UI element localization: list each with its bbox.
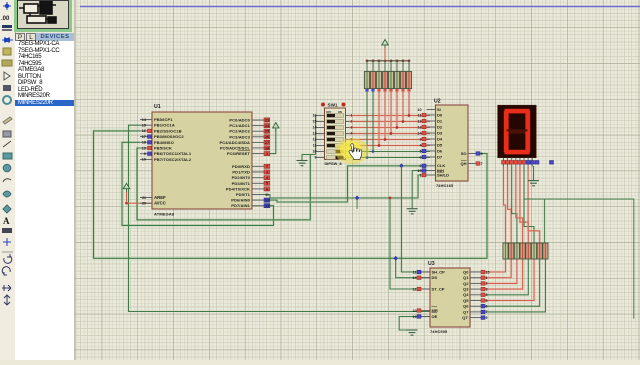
U2 pin 2 CLK: [427, 165, 436, 167]
svg-text:PD7/AIN1: PD7/AIN1: [231, 203, 250, 208]
junction: pull-up node 4: [384, 138, 387, 141]
svg-text:16: 16: [142, 129, 146, 133]
svg-text:6: 6: [419, 155, 421, 159]
svg-text:9: 9: [144, 152, 146, 156]
overview window (top-left preview): [14, 0, 72, 32]
svg-text:SH/LD: SH/LD: [437, 172, 449, 177]
U1 pin 4 PD2/INT0: [252, 177, 264, 179]
wire: SW1 pin 2 to U2 D1: [349, 120, 430, 123]
U1 pin 18 PB4/MISO: [140, 141, 152, 143]
wire: SW1 pin 1 to U2 D0: [349, 114, 430, 117]
U2 pin 3 D4: [427, 138, 436, 140]
svg-text:26: 26: [265, 135, 269, 139]
svg-text:Q7: Q7: [463, 309, 469, 314]
U3 pin 5 Q5: [470, 300, 481, 302]
U1 pin 16 PB2/SS/OC1B: [140, 130, 152, 132]
7seg segment f: [504, 111, 509, 132]
U2 pin 1 SH/LD: [427, 174, 436, 176]
junction: rail node: [408, 59, 411, 62]
svg-text:PB4/MISO: PB4/MISO: [154, 140, 174, 145]
wire: RESET pull-up: [264, 130, 276, 154]
svg-text:PB5/SCK: PB5/SCK: [154, 146, 172, 151]
U2 pin 14 D3: [427, 132, 436, 134]
SW1 pin 4 right: [346, 133, 350, 135]
resistor R15 segment series: [537, 243, 542, 259]
SW1 switch element 4: [327, 132, 344, 136]
U1 pin 27 PC4/ADC4/SDA: [252, 141, 264, 143]
resistor R11 segment series: [514, 243, 519, 259]
U1 pin 25 PC2/ADC2: [252, 130, 264, 132]
svg-text:DS: DS: [432, 275, 438, 280]
SW1 pin 8 right: [346, 157, 350, 159]
U2 pin 15 INH: [427, 170, 436, 172]
wire: SW1 pin 8 to U2 D7: [349, 157, 430, 159]
7seg pin 6: [523, 158, 525, 167]
svg-text:3: 3: [266, 170, 268, 174]
svg-text:19: 19: [142, 146, 146, 150]
7seg pin 1: [503, 158, 505, 167]
svg-text:13: 13: [313, 132, 317, 136]
svg-text:Q4: Q4: [463, 292, 469, 297]
wire: SW1 left common rail: [315, 116, 317, 155]
svg-text:4: 4: [351, 132, 353, 136]
junction: pull-up node 3: [378, 144, 381, 147]
ground G1 left of SW1: [297, 161, 308, 166]
wire: PB4 left loop to PD7 net: [122, 142, 274, 225]
ground G4 under U3: [407, 330, 418, 335]
power arrow VCC above RP1: [382, 40, 388, 48]
svg-text:23: 23: [265, 118, 269, 122]
U3 pin 9 Q7': [470, 317, 481, 319]
wire: U3 Q1 to RP2 resistor 2: [481, 259, 511, 278]
7-segment display DS1 body: [498, 105, 537, 158]
resistor R16 segment series: [543, 243, 548, 259]
U3 pin 10 MR: [422, 310, 431, 312]
U2 pin 13 D2: [427, 126, 436, 128]
junction: rail node: [402, 59, 405, 62]
svg-text:PB2/SS/OC1B: PB2/SS/OC1B: [154, 128, 182, 133]
resistor R3 220R pull-up: [376, 72, 381, 89]
U1 pin 24 PC1/ADC1: [252, 125, 264, 127]
U3 pin 12 ST_CP: [422, 288, 431, 290]
wire: VCC rail above RP1: [367, 60, 409, 62]
svg-text:Q3: Q3: [463, 287, 469, 292]
resistor R13 segment series: [526, 243, 531, 259]
wire: 7seg pin 5 to RP2 resistor 5: [520, 167, 528, 244]
svg-text:PB6/TOSC1/XTAL1: PB6/TOSC1/XTAL1: [154, 151, 192, 156]
junction: blue diamond on SO bus: [394, 256, 398, 261]
U1 pin 6 PD4/T0/XCK: [252, 188, 264, 190]
U3 pin 13 OE: [422, 316, 431, 318]
R8 state mark: [407, 89, 410, 92]
svg-text:ATMEGA8: ATMEGA8: [154, 212, 175, 217]
U2 pin 7 QH: [468, 163, 476, 165]
svg-text:PC1/ADC1: PC1/ADC1: [229, 123, 250, 128]
SW1 switch element 5: [327, 138, 344, 142]
wire: branch SO bus down to U3 DS: [396, 258, 430, 277]
resistor R9 segment series: [503, 243, 508, 259]
svg-text:74HC595: 74HC595: [430, 329, 448, 334]
SW1 pin 2 right: [346, 121, 350, 123]
shift register U3 74HC595 body: [430, 268, 470, 327]
U1 RESET overline: [238, 150, 250, 152]
U1 pin 2 PD0/RXD: [252, 165, 264, 167]
junction: pull-up node 2: [372, 150, 375, 153]
svg-text:PC4/ADC4/SDA: PC4/ADC4/SDA: [219, 140, 250, 145]
svg-text:Q1: Q1: [463, 275, 469, 280]
svg-text:A: A: [3, 216, 10, 226]
wire: 7seg pin 3 to RP2 resistor 3: [512, 167, 517, 244]
svg-text:D2: D2: [437, 124, 443, 129]
svg-text:20: 20: [142, 202, 146, 206]
svg-text:5: 5: [419, 149, 421, 153]
U1 pin 23 PC0/ADC0: [252, 119, 264, 121]
op IC U1 ATMEGA8 body: [152, 112, 252, 209]
svg-text:PD5/T1: PD5/T1: [236, 192, 251, 197]
SW1 pin 9 left: [316, 157, 325, 159]
junction: pull-up node 7: [402, 120, 405, 123]
resistor R12 segment series: [520, 243, 525, 259]
svg-text:PD4/T0/XCK: PD4/T0/XCK: [226, 186, 250, 191]
wire: resistor top lead: [390, 61, 392, 72]
wire: resistor top lead: [372, 61, 374, 72]
svg-text:AVCC: AVCC: [154, 201, 166, 206]
wire: SW1 pin 5 to U2 D4: [349, 138, 430, 141]
U1 pin 3 PD1/TXD: [252, 171, 264, 173]
U3 pin 7 Q7: [470, 311, 481, 313]
resistor R6 220R pull-up: [394, 72, 399, 89]
junction: AVCC node: [125, 202, 128, 205]
U1 pin 9 PB6/TOSC1/XTAL1: [140, 153, 152, 155]
U3 pin 3 Q3: [470, 288, 481, 290]
resistor R1 220R pull-up: [364, 72, 369, 89]
power arrow VCC at AVCC: [123, 183, 129, 191]
svg-text:28: 28: [265, 146, 269, 150]
junction: diamond at latch branch: [355, 196, 359, 201]
DEVICES header: [36, 33, 74, 41]
svg-text:QH: QH: [461, 161, 467, 166]
wire: RP1 resistor 8 lead down: [408, 92, 411, 116]
wire: resistor top lead: [384, 61, 386, 72]
SW1 pin 7 right: [346, 151, 350, 153]
junction: rail node: [372, 59, 375, 62]
SW1 pin 6 right: [346, 145, 350, 147]
svg-text:PC5/ADC5/SCL: PC5/ADC5/SCL: [220, 145, 251, 150]
svg-text:1: 1: [486, 276, 488, 280]
junction: rail node: [384, 59, 387, 62]
SW1 switch element 7: [327, 150, 344, 154]
R4 state mark: [383, 89, 386, 92]
svg-text:11: 11: [265, 193, 269, 197]
wire: 7seg common to ground G3: [533, 166, 535, 181]
wire: SW1 pin 4 to U2 D3: [349, 132, 430, 135]
junction: rail node: [390, 59, 393, 62]
svg-text:16: 16: [313, 114, 317, 118]
wire: branch down to RP2 resistor 8: [543, 199, 545, 243]
U3 pin 2 Q2: [470, 282, 481, 284]
U3 pin 4 Q4: [470, 294, 481, 296]
wire: U2 INH to ground G2: [412, 171, 426, 209]
svg-text:SI: SI: [437, 107, 441, 112]
U1 pin 26 PC3/ADC3: [252, 136, 264, 138]
sheet border: [80, 6, 640, 8]
resistor R4 220R pull-up: [382, 72, 387, 89]
U3 pin 1 Q1: [470, 277, 481, 279]
resistor R8 220R pull-up: [406, 72, 411, 89]
ground G2 below U2: [407, 209, 418, 214]
svg-text:2: 2: [419, 164, 421, 168]
7seg pin 3: [511, 158, 513, 167]
svg-text:PB0/ICP1: PB0/ICP1: [154, 117, 173, 122]
svg-text:2: 2: [486, 282, 488, 286]
U2 pin 5 D6: [427, 150, 436, 152]
SW1 pin 14 left: [316, 127, 325, 129]
U1 pin 28 PC5/ADC5/SCL: [252, 147, 264, 149]
svg-text:13: 13: [265, 204, 269, 208]
SW1 reference label with probe dots: [321, 103, 325, 107]
wire: resistor top lead: [396, 61, 398, 72]
wire: resistor top lead: [408, 61, 410, 72]
svg-text:3: 3: [486, 287, 488, 291]
svg-text:SH_CP: SH_CP: [432, 269, 446, 274]
mouse cursor with highlight glow: [335, 138, 369, 164]
7seg pin 7: [527, 158, 529, 167]
svg-text:12: 12: [412, 287, 416, 291]
svg-text:AREF: AREF: [154, 195, 166, 200]
U2 pin 6 D7: [427, 156, 436, 158]
svg-text:21: 21: [142, 196, 146, 200]
wire: VCC feed RP1: [384, 48, 386, 61]
svg-text:5: 5: [266, 182, 268, 186]
resistor R5 220R pull-up: [388, 72, 393, 89]
R6 state mark: [395, 89, 398, 92]
U2 pin 11 D0: [427, 114, 436, 116]
7seg segment b: [525, 111, 530, 132]
svg-text:SO: SO: [461, 151, 467, 156]
svg-text:PC3/ADC3: PC3/ADC3: [229, 134, 250, 139]
wire: PB5 loop to SW1 ground rail: [137, 148, 310, 220]
wire: 7seg anode net to right riser: [524, 167, 634, 319]
SW1 switch element 6: [327, 144, 344, 148]
wire: RP1 resistor 7 lead down: [402, 92, 405, 122]
wire: VCC to U1 AVCC: [127, 192, 153, 204]
SW1 pin 16 left: [316, 115, 325, 117]
L button: [26, 33, 36, 41]
svg-text:PD3/INT1: PD3/INT1: [232, 181, 251, 186]
svg-text:5: 5: [486, 299, 488, 303]
svg-text:D3: D3: [437, 130, 443, 135]
wire: resistor top lead: [402, 61, 404, 72]
7seg pin 4: [515, 158, 517, 167]
U1 pin 5 PD3/INT1: [252, 182, 264, 184]
junction: red dot on latch net: [389, 197, 392, 200]
SW1 switch element 2: [327, 120, 344, 124]
SW1 pin 11 left: [316, 145, 325, 147]
svg-text:.00: .00: [1, 16, 10, 22]
svg-text:6: 6: [266, 187, 268, 191]
svg-text:PC6/RESET: PC6/RESET: [227, 151, 251, 156]
svg-text:D1: D1: [437, 118, 443, 123]
wire: RP1 resistor 2 lead down: [372, 92, 374, 152]
U2 pin 10 SI: [427, 109, 436, 111]
shift register U2 74HC165 body: [436, 105, 469, 181]
svg-text:Q5: Q5: [463, 298, 469, 303]
7seg segment c: [525, 131, 530, 152]
7seg pin 8: [531, 158, 533, 167]
svg-text:12: 12: [417, 119, 421, 123]
svg-text:3: 3: [419, 137, 421, 141]
svg-text:DIPSW_8: DIPSW_8: [325, 161, 343, 166]
DIP switch SW1 body: [325, 108, 346, 160]
7seg pin 5: [519, 158, 521, 167]
svg-text:U1: U1: [154, 104, 161, 110]
wire: latch branch down to MISO line: [356, 198, 358, 209]
svg-text:U2: U2: [434, 99, 441, 105]
svg-text:2: 2: [351, 120, 353, 124]
wire: resistor top lead: [366, 61, 368, 72]
svg-text:D5: D5: [437, 142, 443, 147]
wire: U3 Q5 to RP2 resistor 6: [481, 259, 534, 301]
svg-text:D4: D4: [437, 136, 443, 141]
svg-text:1: 1: [266, 152, 268, 156]
7seg segment a: [505, 109, 530, 114]
U3 pin 15 Q0: [470, 271, 481, 273]
wire: U3 Q6 to RP2 resistor 7: [481, 259, 540, 306]
U2 pin 12 D1: [427, 120, 436, 122]
svg-text:PC2/ADC2: PC2/ADC2: [229, 129, 250, 134]
U1 pin 13 PD7/AIN1: [252, 205, 264, 207]
svg-text:11: 11: [313, 144, 317, 148]
device list: [15, 41, 74, 360]
wire: SW1 pin 6 to U2 D5: [349, 144, 430, 147]
junction: pull-up node 8: [408, 114, 411, 117]
resistor R2 220R pull-up: [370, 72, 375, 89]
svg-text:14: 14: [313, 126, 317, 130]
7seg pin 10 state: [550, 161, 554, 165]
svg-text:7: 7: [486, 310, 488, 314]
svg-text:10: 10: [412, 309, 416, 313]
wire: U3 Q4 to RP2 resistor 5: [481, 259, 528, 295]
wire: 7seg pin 7 to RP2 resistor 7: [528, 167, 540, 244]
wire: PB2 to left loop down to SO bus: [94, 131, 488, 258]
wire: clock net U1 PD6 to U2 CLK: [264, 166, 427, 202]
P button: [15, 33, 25, 41]
U2 pin 9 SO: [468, 153, 476, 155]
svg-text:PD1/TXD: PD1/TXD: [232, 170, 250, 175]
ground G3 below 7seg: [528, 181, 539, 186]
wire: U2 SH/LD latch net from U1 PD5: [264, 175, 427, 198]
SW1 pin 10 left: [316, 151, 325, 153]
SW1 pin 1 right: [346, 115, 350, 117]
svg-text:PB3/MOSI/OC2: PB3/MOSI/OC2: [154, 134, 184, 139]
U2 pin 4 D5: [427, 144, 436, 146]
svg-text:10: 10: [313, 150, 317, 154]
svg-text:15: 15: [313, 120, 317, 124]
svg-text:Q0: Q0: [463, 269, 469, 274]
wire: RP1 resistor 4 lead down: [384, 92, 387, 140]
wire: RP1 resistor 3 lead down: [378, 92, 381, 146]
svg-text:9: 9: [481, 152, 483, 156]
svg-text:10: 10: [417, 108, 421, 112]
SW1 switch element 1: [327, 114, 344, 118]
svg-text:12: 12: [265, 199, 269, 203]
SW1 pin 12 left: [316, 139, 325, 141]
U1 pin 21 AREF: [140, 197, 152, 199]
left icon toolbar: [0, 0, 16, 360]
wire: latch branch down to U3 ST_CP: [390, 198, 430, 289]
7seg pin 2: [507, 158, 509, 167]
wire: RP1 resistor 6 lead down: [396, 92, 399, 128]
wire: 7seg pin 4 to RP2 resistor 4: [516, 167, 523, 244]
7seg pin 9 state: [535, 161, 539, 165]
svg-text:25: 25: [265, 130, 269, 134]
svg-text:PC0/ADC0: PC0/ADC0: [229, 118, 250, 123]
7seg segment e: [504, 131, 509, 152]
R5 state mark: [389, 89, 392, 92]
SW1 pin 15 left: [316, 121, 325, 123]
svg-text:3: 3: [351, 126, 353, 130]
SW1 pin 13 left: [316, 133, 325, 135]
svg-text:12: 12: [313, 138, 317, 142]
U3 pin 14 DS: [422, 277, 431, 279]
svg-text:15: 15: [142, 124, 146, 128]
R1 state mark: [365, 89, 368, 92]
wire: 7seg pin 1 to RP2 resistor 1: [504, 167, 506, 244]
R2 state mark: [371, 89, 374, 92]
svg-text:PD6/AIN0: PD6/AIN0: [231, 198, 250, 203]
wire: U3 Q3 to RP2 resistor 4: [481, 259, 523, 289]
7seg segment d: [505, 150, 530, 155]
svg-text:9: 9: [315, 156, 317, 160]
svg-text:PD2/INT0: PD2/INT0: [232, 175, 251, 180]
R3 state mark: [377, 89, 380, 92]
svg-text:9: 9: [486, 316, 488, 320]
svg-text:D6: D6: [437, 148, 443, 153]
wire: rail to ground G1: [302, 155, 316, 161]
resistor R14 segment series: [531, 243, 536, 259]
svg-text:2: 2: [266, 165, 268, 169]
svg-text:15: 15: [486, 270, 490, 274]
U1 pin 1 PC6/RESET: [252, 153, 264, 155]
junction: pull-up node 1: [366, 156, 369, 159]
wire: U3 Q2 to RP2 resistor 3: [481, 259, 517, 283]
svg-text:1: 1: [419, 173, 421, 177]
wire: U3 Q0 to RP2 resistor 1: [481, 259, 506, 272]
U1 pin 10 PB7/TOSC2/XTAL2: [140, 158, 152, 160]
svg-text:MR: MR: [432, 308, 438, 313]
svg-text:SW1: SW1: [328, 103, 338, 108]
R7 state mark: [401, 89, 404, 92]
U3 pin 6 Q6: [470, 305, 481, 307]
junction: rail node: [396, 59, 399, 62]
U1 pin 14 PB0/ICP1: [140, 119, 152, 121]
wire: 7seg pin 2 to RP2 resistor 2: [508, 167, 512, 244]
svg-text:11: 11: [418, 113, 422, 117]
svg-text:27: 27: [265, 141, 269, 145]
svg-text:10: 10: [142, 158, 146, 162]
wire: RP1 resistor 1 lead down: [366, 92, 368, 158]
svg-text:U3: U3: [428, 261, 435, 267]
svg-text:Q6: Q6: [463, 304, 469, 309]
svg-text:13: 13: [412, 315, 416, 319]
wire: U3 OE to ground: [399, 317, 430, 331]
wire: PB1 long loop to U3 MR: [129, 125, 431, 311]
svg-text:PD0/RXD: PD0/RXD: [232, 164, 250, 169]
svg-text:11: 11: [413, 270, 417, 274]
resistor R7 220R pull-up: [400, 72, 405, 89]
wire: SW1 pin 3 to U2 D2: [349, 126, 430, 129]
svg-text:18: 18: [142, 141, 146, 145]
